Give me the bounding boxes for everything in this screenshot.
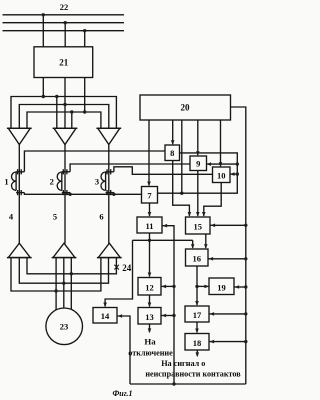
wire: line 4 (phase conductor through transformer 1): [18, 145, 20, 244]
svg-text:10: 10: [217, 171, 226, 181]
wire: net from 8 right to 9 and 10 and 7: [158, 153, 238, 193]
svg-text:На сигнал о: На сигнал о: [161, 359, 205, 368]
junction on bus line C: [83, 29, 86, 32]
block 21: [34, 47, 93, 78]
switch group triangle (lower, line 5): [52, 243, 77, 257]
wire: phase C output of 21: [84, 78, 86, 113]
junction phase C at drop: [83, 110, 86, 113]
wire: 20 output to control net: [181, 120, 183, 193]
svg-text:3: 3: [95, 177, 99, 187]
svg-text:5: 5: [53, 212, 57, 222]
svg-text:11: 11: [145, 221, 153, 231]
svg-text:На: На: [144, 337, 156, 347]
wire: transformer 2 secondary return: [69, 193, 71, 195]
wire: group 2 output left to motor: [55, 258, 57, 310]
junction transformer 3 return on rail: [112, 193, 115, 196]
junction phase A at drop: [42, 95, 45, 98]
block 18: [185, 334, 209, 351]
wire: 20 output to 10: [219, 120, 223, 167]
wire: 16 output to 17: [195, 266, 199, 306]
wire: 12 output to 13: [148, 295, 152, 307]
svg-text:отключение: отключение: [128, 349, 173, 358]
switch group triangle (lower, line 4): [7, 243, 32, 257]
junction bus at 18: [244, 340, 247, 343]
block 14: [93, 308, 117, 324]
svg-text:14: 14: [101, 311, 110, 321]
wire: group 2 output right to motor: [70, 258, 72, 310]
wire: 11 output horizontal run: [133, 239, 193, 241]
junction phase A tap for group 2: [55, 95, 58, 98]
wire: phase B output of 21 (runs to middle input of switch group 2): [64, 78, 66, 129]
wire: 11 output branch to 14: [103, 240, 132, 307]
wire: bottom rail: [130, 383, 246, 385]
svg-text:13: 13: [145, 312, 154, 322]
svg-text:Фиг.1: Фиг.1: [112, 389, 132, 398]
junction feedback on rail: [172, 382, 175, 385]
wire: 20 right output to common bus: [231, 107, 246, 384]
wire: phase C distribution rail: [27, 112, 101, 128]
wire: 20 output to 8: [171, 120, 175, 145]
wire: feedback stub into 13 right: [162, 314, 175, 318]
wire: transformer 2 secondary lead to unit 9: [70, 164, 190, 172]
wire: tap to switch group 2 right input: [71, 112, 73, 128]
current transformer 1: [12, 169, 25, 195]
wire: 18 output (fault signal): [196, 350, 200, 357]
svg-text:22: 22: [60, 2, 69, 12]
wire: motor phase rail top: [27, 258, 116, 274]
block 15: [186, 217, 211, 234]
svg-text:8: 8: [170, 148, 174, 158]
wire: 11 output tee: [149, 233, 151, 240]
junction net at 10: [236, 172, 239, 175]
wire: 11 output branch to 12: [148, 240, 152, 277]
wire: phase A distribution rail: [11, 97, 116, 129]
junction phase B cross: [63, 103, 66, 106]
wire: 20 output to 9: [196, 120, 200, 156]
wire: tee into 19 left: [197, 285, 209, 289]
junction bus at 17: [244, 312, 247, 315]
junction motor lead C: [70, 272, 73, 275]
junction bus at 16: [244, 257, 247, 260]
junction on bus line B: [63, 21, 66, 24]
svg-text:12: 12: [145, 283, 154, 293]
svg-text:неисправности контактов: неисправности контактов: [145, 369, 241, 378]
current transformer 3: [101, 169, 114, 195]
junction at 11 output: [148, 239, 151, 242]
wire: bus stub into 15 right: [211, 224, 246, 228]
label x24 multiplier cross: [114, 265, 119, 270]
svg-text:18: 18: [193, 338, 202, 348]
svg-text:15: 15: [193, 222, 202, 232]
svg-text:1: 1: [4, 177, 8, 187]
block 17: [185, 306, 209, 322]
wire: transformer 3 secondary return: [113, 193, 115, 195]
junction feedback at 13: [172, 314, 175, 317]
bus 22: three-phase supply lines: [3, 15, 125, 31]
wire: phase C drop from bus to unit 21: [84, 31, 86, 47]
wire: bus stub into 19 right: [235, 285, 246, 289]
wire: tap to switch group 2 left input: [56, 97, 58, 129]
wire: line 6 (phase conductor through transformer 3): [108, 145, 110, 244]
wire: bus stub into 18 right: [210, 340, 246, 344]
wire: 17 output to 18: [195, 322, 199, 333]
block 16: [186, 249, 209, 266]
wire: 9 output to 15: [196, 171, 200, 217]
wire: line 5 (phase conductor through transformer 2): [64, 145, 66, 244]
wire: 13 output (trip signal): [148, 324, 152, 333]
switch group triangle (lower, line 6): [97, 243, 122, 257]
wire: 15 output to 16: [204, 234, 208, 249]
switch group triangle (upper, over transformer 2): [53, 128, 78, 144]
wire: 8 output to 15: [173, 161, 192, 217]
wire: net stub into 9 right: [207, 162, 238, 166]
junction motor lead A: [54, 289, 57, 292]
wire: secondary common rail to unit 7: [24, 193, 141, 195]
junction 16-17 tee to 19: [195, 285, 198, 288]
block 12: [138, 278, 161, 296]
wire: transformer 3 secondary lead to unit 10: [114, 167, 213, 175]
block 13: [138, 308, 161, 325]
current transformer 2: [57, 169, 70, 195]
block 9: [190, 156, 207, 171]
wire: phase B drop from bus to unit 21: [64, 23, 66, 47]
wire: net stub into 10 right: [230, 172, 237, 176]
svg-text:17: 17: [193, 310, 202, 320]
switch group triangle (upper, over transformer 1): [7, 128, 32, 144]
junction transformer 2 return on rail: [68, 193, 71, 196]
svg-text:9: 9: [196, 159, 200, 169]
block 7: [142, 187, 158, 204]
junction bus at 19: [244, 285, 247, 288]
switch group triangle (upper, over transformer 3): [96, 128, 121, 144]
svg-text:23: 23: [60, 321, 69, 331]
junction bus at 15: [244, 224, 247, 227]
junction phase C tap for group 2: [70, 110, 73, 113]
junction feedback at 12: [172, 285, 175, 288]
svg-text:6: 6: [99, 212, 103, 222]
svg-text:21: 21: [59, 57, 69, 67]
svg-text:24: 24: [122, 263, 132, 273]
wire: group 2 output middle to motor: [63, 258, 65, 308]
block 10: [213, 167, 231, 183]
svg-text:4: 4: [9, 212, 14, 222]
svg-text:19: 19: [217, 283, 226, 293]
wire: phase A drop from bus to unit 21: [42, 15, 44, 47]
wire: motor phase rail bottom: [11, 258, 101, 291]
wire: motor phase rail middle: [19, 258, 108, 284]
wire: 20 output to 7: [147, 120, 151, 186]
wire: feedback riser from rail to 11: [163, 224, 175, 384]
wire: bus stub into 16 right: [209, 257, 246, 261]
wire: 7 output to 11: [148, 203, 152, 217]
wire: rail to 14 right: [118, 314, 131, 384]
svg-text:20: 20: [181, 103, 191, 113]
block 20: [140, 95, 231, 120]
wire: phase B distribution rail: [19, 105, 109, 129]
wire: phase A output of 21: [42, 78, 44, 97]
block 11: [137, 217, 162, 233]
svg-text:7: 7: [147, 191, 152, 201]
wire: feedback stub into 12 right: [162, 285, 175, 289]
wire: bus stub into 17 right: [210, 312, 246, 316]
block 8: [165, 145, 180, 161]
block 19: [209, 278, 234, 295]
junction 20 output on net: [180, 192, 183, 195]
junction net at 9: [236, 162, 239, 165]
junction motor lead B: [62, 282, 65, 285]
wire: 10 output to 15: [202, 183, 221, 217]
svg-text:2: 2: [50, 177, 54, 187]
wire: transformer 1 secondary lead to unit 8: [24, 151, 165, 172]
motor 23: [46, 308, 83, 345]
junction on bus line A: [42, 13, 45, 16]
svg-text:16: 16: [192, 254, 201, 264]
wire: 11 output branch to 16: [191, 240, 195, 249]
